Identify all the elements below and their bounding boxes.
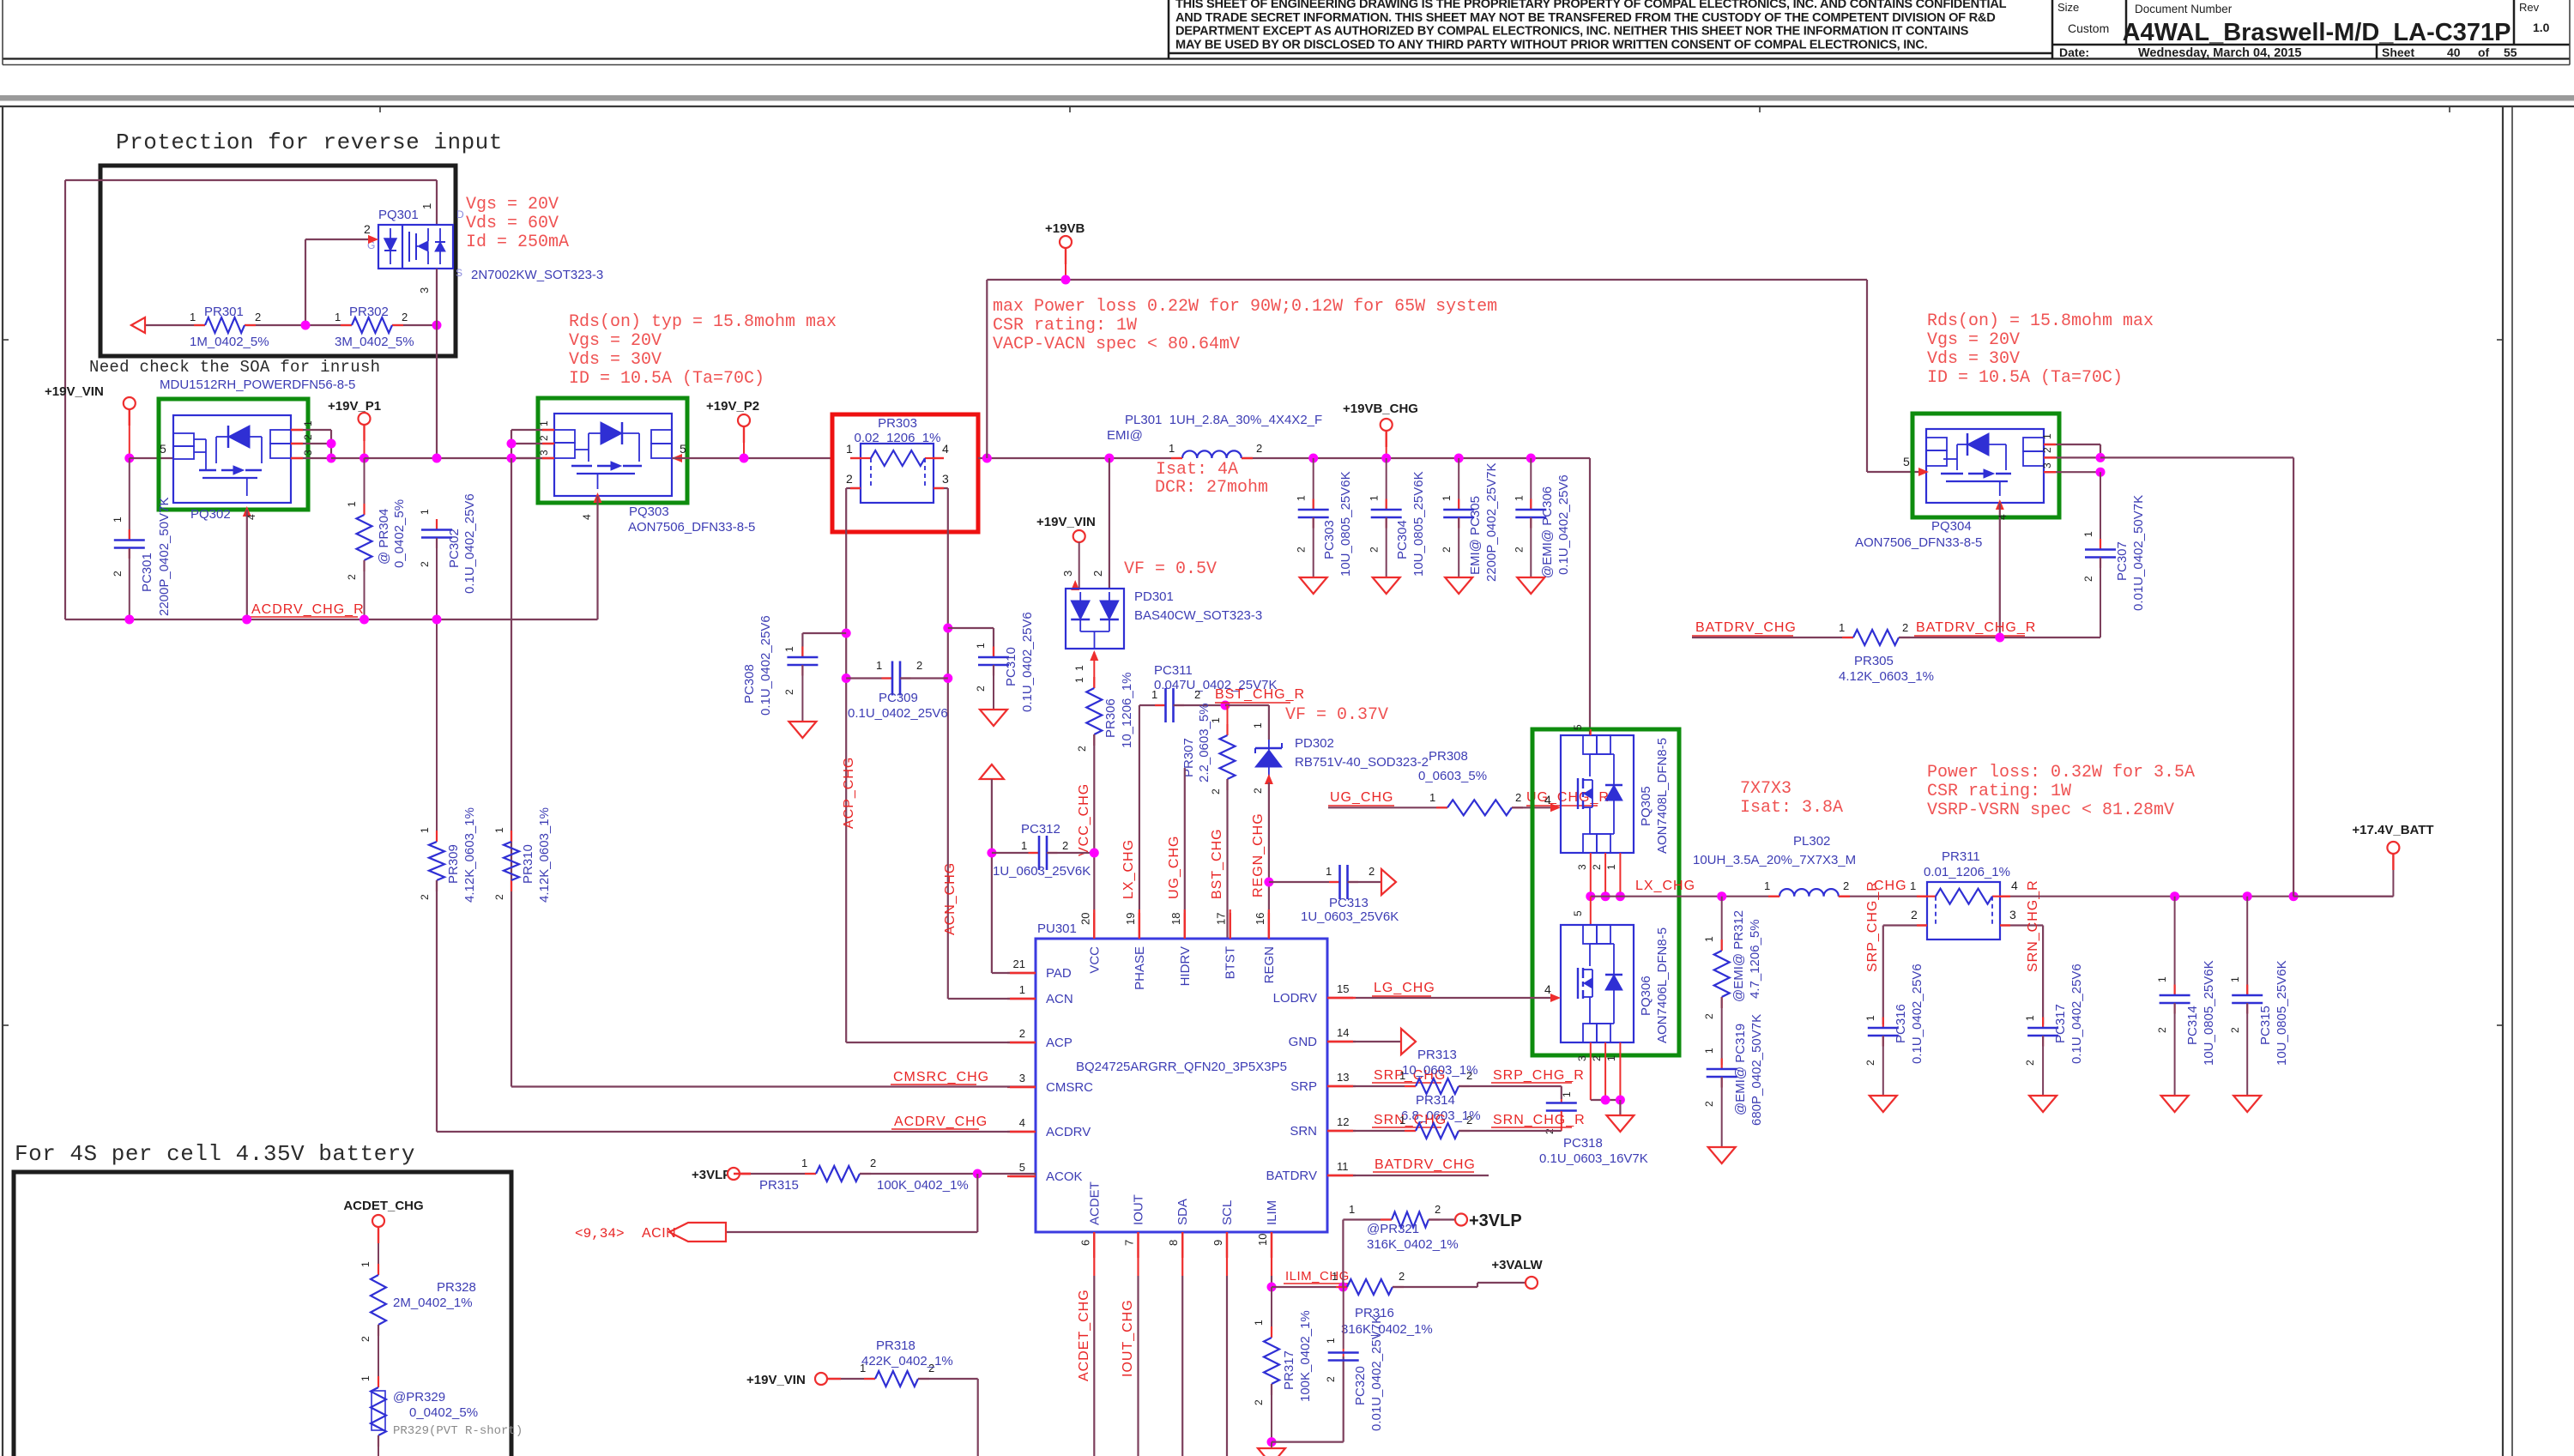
- svg-text:+19V_VIN: +19V_VIN: [1036, 515, 1096, 529]
- power arrow to PAD net: [980, 764, 1004, 779]
- wire PC320 loop: [1272, 1441, 1344, 1442]
- red stubs PR311: [1917, 895, 1927, 897]
- svg-text:@EMI@ PC306: @EMI@ PC306: [1540, 486, 1555, 578]
- node ACOK ACIN junction: [973, 1169, 982, 1179]
- svg-text:AON7506_DFN33-8-5: AON7506_DFN33-8-5: [628, 520, 755, 535]
- main rail to PQ303: [365, 457, 555, 459]
- ground PC317: [2029, 1096, 2057, 1112]
- svg-text:BATDRV: BATDRV: [1266, 1169, 1317, 1183]
- left arrow port: [131, 317, 145, 333]
- svg-text:ID = 10.5A (Ta=70C): ID = 10.5A (Ta=70C): [1927, 368, 2123, 388]
- resistor PR312: [1721, 897, 1723, 951]
- red stub PL301: [1171, 457, 1182, 459]
- svg-text:PR328: PR328: [437, 1280, 476, 1295]
- svg-text:4: 4: [581, 514, 593, 520]
- svg-text:CSR rating: 1W: CSR rating: 1W: [1927, 782, 2071, 801]
- svg-text:Vds = 60V: Vds = 60V: [466, 214, 559, 233]
- svg-text:2: 2: [975, 686, 987, 692]
- node cap PC304 rail junction: [1381, 454, 1391, 463]
- svg-text:ACDET_CHG: ACDET_CHG: [1077, 1289, 1091, 1381]
- svg-text:1: 1: [360, 1261, 372, 1267]
- svg-text:2: 2: [493, 894, 505, 900]
- svg-text:8: 8: [1167, 1240, 1180, 1246]
- svg-text:PC302: PC302: [447, 529, 462, 568]
- ground PR317 PC320: [1271, 1442, 1272, 1448]
- wire BATDRV_CHG row: [1692, 637, 1853, 638]
- svg-text:ILIM: ILIM: [1265, 1200, 1279, 1225]
- resistor PR306: [1093, 677, 1095, 688]
- node PR317 bottom junction: [1267, 1437, 1277, 1447]
- svg-text:Custom: Custom: [2068, 21, 2109, 35]
- resistor PR302: [341, 324, 352, 326]
- svg-text:2: 2: [1091, 571, 1104, 577]
- main rail PQ302 to +19V_P1: [331, 457, 365, 459]
- capacitor PC306: [1530, 458, 1532, 510]
- svg-text:1: 1: [1073, 665, 1085, 671]
- wire LX row: [1591, 896, 1779, 897]
- svg-text:0.1U_0402_25V6: 0.1U_0402_25V6: [1020, 612, 1035, 712]
- svg-text:1U_0603_25V6K: 1U_0603_25V6K: [1301, 909, 1399, 924]
- wire +19VB branch up and right: [986, 280, 988, 458]
- svg-text:1: 1: [1839, 621, 1845, 634]
- svg-text:1: 1: [2024, 1015, 2036, 1021]
- svg-text:0_0402_5%: 0_0402_5%: [392, 499, 407, 568]
- svg-text:PR313: PR313: [1417, 1048, 1457, 1062]
- svg-text:2: 2: [1194, 688, 1200, 701]
- svg-text:CMSRC: CMSRC: [1046, 1080, 1093, 1095]
- svg-text:1: 1: [419, 509, 431, 515]
- wire SDA column: [1181, 1276, 1183, 1456]
- wire cap bank drop to PQ305: [1589, 458, 1591, 735]
- svg-text:@EMI@ PC319: @EMI@ PC319: [1733, 1024, 1748, 1115]
- svg-text:PR302: PR302: [349, 305, 389, 319]
- svg-text:1: 1: [1513, 495, 1525, 501]
- wire REGN column: [1268, 782, 1270, 939]
- svg-text:PC317: PC317: [2053, 1004, 2068, 1043]
- svg-text:+19VB: +19VB: [1045, 221, 1085, 236]
- svg-text:4.12K_0603_1%: 4.12K_0603_1%: [462, 807, 477, 903]
- resistor PR310 in CMSRC column: [511, 831, 512, 842]
- svg-text:0_0603_5%: 0_0603_5%: [1418, 769, 1487, 783]
- red pin stubs overlay IC bottom: [1093, 1232, 1095, 1258]
- svg-text:0.1U_0603_16V7K: 0.1U_0603_16V7K: [1539, 1151, 1648, 1166]
- svg-text:<9,34>: <9,34>: [575, 1226, 625, 1242]
- svg-text:5: 5: [1903, 455, 1910, 468]
- svg-text:0.01U_0402_50V7K: 0.01U_0402_50V7K: [2131, 495, 2146, 611]
- svg-text:1: 1: [419, 827, 431, 833]
- wire from PQ304 down to battery rail: [2293, 457, 2294, 896]
- node LX junctions: [1586, 891, 1595, 901]
- svg-text:SRN_CHG: SRN_CHG: [1374, 1113, 1447, 1127]
- svg-text:PQ304: PQ304: [1931, 519, 1972, 534]
- svg-text:2: 2: [1369, 865, 1375, 878]
- wire PAD: [992, 972, 1036, 974]
- svg-text:MAY BE USED BY OR DISCLOSED TO: MAY BE USED BY OR DISCLOSED TO ANY THIRD…: [1175, 38, 1928, 51]
- svg-text:2: 2: [1703, 1013, 1715, 1019]
- svg-text:ACIN: ACIN: [642, 1226, 676, 1241]
- svg-text:THIS SHEET OF ENGINEERING DRAW: THIS SHEET OF ENGINEERING DRAWING IS THE…: [1175, 0, 2007, 11]
- node cap PC305 rail junction: [1454, 454, 1464, 463]
- svg-text:1: 1: [1019, 983, 1025, 996]
- svg-text:1: 1: [1441, 495, 1453, 501]
- wire LX column to PC311: [1139, 705, 1140, 939]
- svg-text:PC311: PC311: [1154, 663, 1193, 678]
- wire CMSRC row: [511, 1085, 1036, 1087]
- diode PD301 BAS40CW: [1066, 589, 1124, 649]
- PQ304 pin 4 gate wire: [1996, 499, 2004, 510]
- IC right pin stubs: [1327, 997, 1356, 999]
- svg-text:PC304: PC304: [1395, 520, 1410, 559]
- svg-text:PL301 1UH_2.8A_30%_4X4X2_F: PL301 1UH_2.8A_30%_4X4X2_F: [1125, 413, 1322, 427]
- node +19V_P1 junction: [360, 454, 369, 463]
- svg-text:PC318: PC318: [1563, 1136, 1603, 1151]
- svg-text:AON7408L_DFN8-5: AON7408L_DFN8-5: [1655, 738, 1670, 854]
- svg-text:SRP_CHG_R: SRP_CHG_R: [1865, 880, 1880, 972]
- battery rail from PR311: [2000, 896, 2393, 897]
- svg-text:PC316: PC316: [1894, 1004, 1908, 1043]
- svg-text:2: 2: [255, 311, 261, 323]
- svg-text:1: 1: [2082, 531, 2094, 537]
- svg-text:Rev: Rev: [2519, 1, 2540, 14]
- ground for PC304: [1373, 577, 1400, 594]
- svg-text:+19V_VIN: +19V_VIN: [746, 1373, 806, 1387]
- svg-text:4: 4: [2011, 879, 2018, 892]
- svg-text:CSR rating: 1W: CSR rating: 1W: [993, 316, 1137, 335]
- frame zone tick marks: [379, 106, 381, 112]
- svg-text:10_0603_1%: 10_0603_1%: [1402, 1063, 1477, 1078]
- svg-text:2: 2: [1911, 908, 1918, 921]
- svg-text:5: 5: [160, 442, 166, 456]
- svg-text:1: 1: [1429, 791, 1435, 804]
- resistor PR328: [378, 1264, 379, 1275]
- svg-text:PC303: PC303: [1322, 520, 1337, 559]
- svg-text:2: 2: [1296, 547, 1308, 553]
- capacitor PC315: [2246, 897, 2248, 995]
- ground for PC306: [1517, 577, 1544, 594]
- PQ304 pin 5 wire: [1918, 468, 1929, 476]
- svg-text:2: 2: [1513, 547, 1525, 553]
- resistor PR309 in ACDRV column: [436, 619, 438, 842]
- svg-text:IOUT: IOUT: [1132, 1194, 1146, 1225]
- svg-text:1: 1: [493, 827, 505, 833]
- svg-text:422K_0402_1%: 422K_0402_1%: [861, 1354, 953, 1368]
- svg-text:1: 1: [360, 1375, 372, 1381]
- svg-text:max Power loss 0.22W for 90W;0: max Power loss 0.22W for 90W;0.12W for 6…: [993, 297, 1497, 317]
- svg-text:AON7406L_DFN8-5: AON7406L_DFN8-5: [1655, 927, 1670, 1043]
- svg-text:PR305: PR305: [1854, 654, 1894, 668]
- svg-text:Isat: 4A: Isat: 4A: [1156, 460, 1238, 480]
- svg-text:Power loss: 0.32W for 3.5A: Power loss: 0.32W for 3.5A: [1927, 763, 2195, 782]
- transistor PQ304 AON7506: [1912, 414, 2059, 517]
- wire ACDET column: [1093, 1276, 1095, 1456]
- svg-text:BST_CHG: BST_CHG: [1210, 828, 1224, 899]
- svg-text:1: 1: [2229, 976, 2241, 982]
- svg-text:3: 3: [302, 450, 314, 456]
- capacitor PC316: [1882, 1018, 1884, 1029]
- svg-text:0_0402_5%: 0_0402_5%: [409, 1405, 478, 1420]
- svg-text:1: 1: [1561, 1091, 1573, 1097]
- svg-text:1: 1: [1252, 722, 1264, 728]
- wire HIDRV column: [1184, 768, 1186, 939]
- svg-text:0.1U_0402_25V6: 0.1U_0402_25V6: [1910, 964, 1924, 1064]
- svg-text:5: 5: [1572, 724, 1584, 730]
- svg-text:PR318: PR318: [876, 1338, 915, 1353]
- node cap PC303 rail junction: [1308, 454, 1318, 463]
- main rail PL301 to cap bank: [1242, 457, 1590, 459]
- wire VCC column: [1093, 734, 1095, 939]
- svg-text:BATDRV_CHG: BATDRV_CHG: [1375, 1157, 1476, 1172]
- svg-text:RB751V-40_SOD323-2: RB751V-40_SOD323-2: [1295, 755, 1429, 770]
- svg-text:VF = 0.37V: VF = 0.37V: [1285, 705, 1388, 725]
- wire PR329 bottom: [378, 1435, 379, 1456]
- svg-text:SRN_CHG_R: SRN_CHG_R: [1493, 1113, 1586, 1127]
- svg-text:18: 18: [1169, 913, 1182, 925]
- resistor PR304: [364, 458, 366, 515]
- node junction PQ301 source: [432, 321, 442, 330]
- svg-text:13: 13: [1337, 1071, 1349, 1084]
- wire ILIM_CHG row: [1272, 1286, 1343, 1288]
- svg-text:BATDRV_CHG: BATDRV_CHG: [1695, 620, 1797, 635]
- svg-text:4: 4: [1019, 1116, 1025, 1129]
- svg-text:0.02_1206_1%: 0.02_1206_1%: [855, 431, 941, 445]
- wire BATDRV_CHG_R: [1899, 637, 2100, 638]
- svg-text:3: 3: [2009, 908, 2016, 921]
- svg-text:4: 4: [1544, 793, 1551, 807]
- svg-text:0.1U_0402_25V6: 0.1U_0402_25V6: [758, 615, 773, 716]
- node battery feed junction: [2289, 891, 2299, 901]
- svg-text:PQ301: PQ301: [378, 208, 419, 222]
- PQ302 pin 4 gate wire: [243, 506, 251, 517]
- svg-text:PC308: PC308: [742, 664, 757, 704]
- wire ACN vertical: [947, 628, 949, 999]
- svg-text:Id = 250mA: Id = 250mA: [466, 233, 569, 252]
- capacitor PC310: [993, 647, 994, 658]
- svg-text:PQ305: PQ305: [1639, 786, 1653, 826]
- svg-text:PC312: PC312: [1021, 822, 1060, 837]
- sense resistor PR303 red box: [832, 414, 978, 532]
- svg-text:VCC: VCC: [1087, 946, 1102, 974]
- svg-text:1: 1: [1296, 495, 1308, 501]
- node REGN junction: [1264, 878, 1273, 887]
- svg-text:EMI@: EMI@: [1107, 428, 1143, 443]
- svg-text:2: 2: [1864, 1060, 1876, 1066]
- svg-text:PC307: PC307: [2115, 541, 2130, 581]
- svg-text:4: 4: [245, 514, 257, 520]
- svg-text:11: 11: [1337, 1160, 1349, 1173]
- wire SRN_CHG_R to PC318 bottom: [1459, 1130, 1562, 1132]
- svg-text:3M_0402_5%: 3M_0402_5%: [335, 335, 414, 349]
- svg-text:HIDRV: HIDRV: [1178, 946, 1193, 986]
- wire ACIN: [976, 1174, 978, 1232]
- svg-text:6: 6: [1079, 1240, 1091, 1246]
- wire PQ304 pins to battery feed: [2100, 456, 2293, 458]
- PQ305 source pins down to LX: [1590, 853, 1592, 897]
- svg-text:@EMI@ PR312: @EMI@ PR312: [1731, 910, 1746, 1002]
- svg-text:REGN: REGN: [1262, 946, 1277, 983]
- sense resistor PR311: [1927, 882, 2000, 939]
- wire SCL column: [1226, 1276, 1228, 1456]
- resistor PR307: [1225, 704, 1228, 706]
- power port +3VALW: [1526, 1277, 1538, 1289]
- svg-text:15: 15: [1337, 982, 1349, 995]
- svg-text:2: 2: [302, 434, 314, 440]
- svg-text:3: 3: [1576, 864, 1588, 870]
- svg-text:PR303: PR303: [878, 416, 917, 431]
- svg-text:GND: GND: [1289, 1035, 1318, 1049]
- svg-text:680P_0402_50V7K: 680P_0402_50V7K: [1749, 1014, 1764, 1126]
- transistor PQ305 AON7408L: [1561, 735, 1634, 853]
- svg-text:Vds = 30V: Vds = 30V: [1927, 349, 2020, 369]
- svg-text:SRP_CHG_R: SRP_CHG_R: [1493, 1068, 1585, 1083]
- svg-text:PU301: PU301: [1037, 921, 1077, 936]
- svg-text:0.1U_0402_25V6: 0.1U_0402_25V6: [462, 493, 477, 594]
- svg-text:1: 1: [302, 420, 314, 426]
- svg-text:Need check the SOA for inrush: Need check the SOA for inrush: [89, 358, 380, 377]
- svg-text:2: 2: [2024, 1060, 2036, 1066]
- capacitor PC319: [1721, 1059, 1723, 1070]
- svg-text:0.1U_0402_25V6: 0.1U_0402_25V6: [2069, 964, 2084, 1064]
- svg-text:2: 2: [1703, 1101, 1715, 1107]
- svg-text:2: 2: [112, 571, 124, 577]
- svg-text:LX_CHG: LX_CHG: [1121, 839, 1136, 899]
- wire PQ301 gate: [305, 239, 375, 240]
- transistor PQ301: [378, 225, 453, 269]
- svg-text:1: 1: [1764, 879, 1770, 892]
- svg-text:4: 4: [942, 442, 949, 456]
- svg-text:2: 2: [1591, 864, 1603, 870]
- node junction PR301-PR302: [301, 321, 311, 330]
- svg-text:LODRV: LODRV: [1273, 991, 1317, 1006]
- svg-text:3: 3: [1576, 1055, 1588, 1061]
- svg-text:Sheet: Sheet: [2382, 45, 2414, 59]
- resistor PR317: [1271, 1287, 1272, 1338]
- svg-text:2: 2: [419, 894, 431, 900]
- svg-text:19: 19: [1124, 913, 1137, 925]
- svg-text:LG_CHG: LG_CHG: [1374, 981, 1435, 995]
- svg-text:2: 2: [1466, 1114, 1472, 1127]
- transistor PQ306 AON7406L: [1561, 925, 1634, 1042]
- svg-text:VSRP-VSRN spec < 81.28mV: VSRP-VSRN spec < 81.28mV: [1927, 800, 2174, 820]
- svg-text:+19V_P1: +19V_P1: [328, 399, 381, 414]
- capacitor PC301: [129, 458, 130, 540]
- svg-text:@PR321: @PR321: [1367, 1222, 1419, 1236]
- svg-text:VACP-VACN spec < 80.64mV: VACP-VACN spec < 80.64mV: [993, 335, 1240, 354]
- wire ACN to PC310: [948, 627, 994, 629]
- svg-text:2: 2: [1325, 1376, 1337, 1382]
- svg-text:DEPARTMENT EXCEPT AS AUTHORIZE: DEPARTMENT EXCEPT AS AUTHORIZED BY COMPA…: [1175, 25, 1969, 39]
- svg-text:Rds(on) typ = 15.8mohm max: Rds(on) typ = 15.8mohm max: [569, 312, 837, 332]
- svg-text:2: 2: [870, 1157, 876, 1169]
- svg-text:AND TRADE SECRET INFORMATION.: AND TRADE SECRET INFORMATION. THIS SHEET…: [1175, 11, 1996, 25]
- wire PR303 pin2 to ACP: [846, 487, 861, 489]
- svg-text:ACDRV_CHG: ACDRV_CHG: [894, 1115, 988, 1129]
- svg-text:1: 1: [846, 442, 853, 456]
- capacitor PC305: [1458, 458, 1459, 510]
- node +19VB branch junction: [982, 454, 992, 463]
- node PC312 right junction VCC: [1090, 849, 1099, 858]
- svg-text:2: 2: [346, 574, 358, 580]
- svg-text:PR307: PR307: [1181, 738, 1196, 777]
- node PD301 rail junction: [1104, 454, 1114, 463]
- svg-text:PR317: PR317: [1282, 1350, 1296, 1390]
- resistor PR313 arrow: [1401, 1029, 1416, 1054]
- svg-text:1: 1: [1864, 1015, 1876, 1021]
- ground PC319: [1708, 1147, 1736, 1163]
- svg-text:ACP_CHG: ACP_CHG: [842, 757, 856, 829]
- svg-text:PC309: PC309: [879, 691, 918, 705]
- wire to +3VALW: [1393, 1286, 1477, 1288]
- svg-text:ILIM_CHG: ILIM_CHG: [1285, 1269, 1350, 1284]
- svg-text:2: 2: [1062, 839, 1068, 852]
- svg-text:17: 17: [1215, 913, 1228, 925]
- ground PC314: [2161, 1096, 2189, 1112]
- svg-text:21: 21: [1013, 958, 1025, 970]
- diode PD302 RB751V-40: [1255, 747, 1282, 750]
- svg-text:PC320: PC320: [1353, 1366, 1368, 1405]
- red pin stubs overlay IC right: [1327, 997, 1353, 999]
- svg-text:PAD: PAD: [1046, 966, 1072, 981]
- svg-text:Vds = 30V: Vds = 30V: [569, 350, 662, 370]
- node LX to PR312: [1717, 891, 1726, 901]
- svg-text:2: 2: [1019, 1027, 1025, 1040]
- resistor PR303 body: [861, 444, 934, 503]
- node cap PC306 rail junction: [1526, 454, 1536, 463]
- wire LODRV to PQ306 gate LG_CHG: [1327, 997, 1558, 999]
- capacitor PC303: [1313, 458, 1314, 510]
- svg-text:Protection for reverse input: Protection for reverse input: [116, 130, 503, 155]
- svg-text:ACOK: ACOK: [1046, 1169, 1083, 1184]
- PQ305 drain stub: [1590, 729, 1592, 735]
- title block date row: [2052, 44, 2570, 46]
- svg-text:2: 2: [360, 1336, 372, 1342]
- wire SRP row: [1327, 1085, 1416, 1087]
- svg-text:2: 2: [1441, 547, 1453, 553]
- svg-text:3: 3: [1061, 571, 1074, 577]
- svg-text:2: 2: [538, 435, 550, 441]
- svg-text:3: 3: [538, 450, 550, 456]
- svg-text:PC301: PC301: [140, 553, 154, 592]
- svg-text:Size: Size: [2057, 1, 2079, 14]
- svg-text:7X7X3: 7X7X3: [1740, 779, 1792, 799]
- svg-text:UG_CHG: UG_CHG: [1330, 790, 1393, 805]
- svg-text:Rds(on) = 15.8mohm max: Rds(on) = 15.8mohm max: [1927, 311, 2154, 331]
- svg-text:2: 2: [1515, 791, 1521, 804]
- wire CMSRC from +19V_P2 node: [511, 458, 512, 1087]
- svg-text:1: 1: [1605, 864, 1617, 870]
- svg-text:PR310: PR310: [521, 844, 535, 884]
- svg-text:10U_0805_25V6K: 10U_0805_25V6K: [2275, 960, 2289, 1066]
- svg-text:100K_0402_1%: 100K_0402_1%: [877, 1178, 969, 1193]
- svg-text:1: 1: [1605, 1055, 1617, 1061]
- svg-text:2.2_0603_5%: 2.2_0603_5%: [1197, 703, 1211, 782]
- svg-text:PL302: PL302: [1793, 834, 1830, 849]
- svg-text:2: 2: [2082, 576, 2094, 582]
- svg-text:of: of: [2478, 45, 2490, 59]
- svg-text:5: 5: [1019, 1161, 1025, 1174]
- off-page arrow ACIN: [669, 1223, 726, 1242]
- svg-text:2: 2: [916, 659, 922, 672]
- svg-text:3: 3: [418, 287, 431, 293]
- svg-text:Date:: Date:: [2059, 45, 2089, 59]
- svg-text:7: 7: [1123, 1240, 1136, 1246]
- svg-text:1: 1: [1703, 936, 1715, 942]
- svg-text:16: 16: [1254, 913, 1266, 925]
- svg-text:5: 5: [680, 442, 686, 456]
- IC PU301 BQ24725A body: [1036, 939, 1327, 1232]
- IC left pin stubs: [1007, 972, 1036, 974]
- svg-text:4.12K_0603_1%: 4.12K_0603_1%: [537, 807, 552, 903]
- svg-text:1U_0603_25V6K: 1U_0603_25V6K: [993, 864, 1091, 879]
